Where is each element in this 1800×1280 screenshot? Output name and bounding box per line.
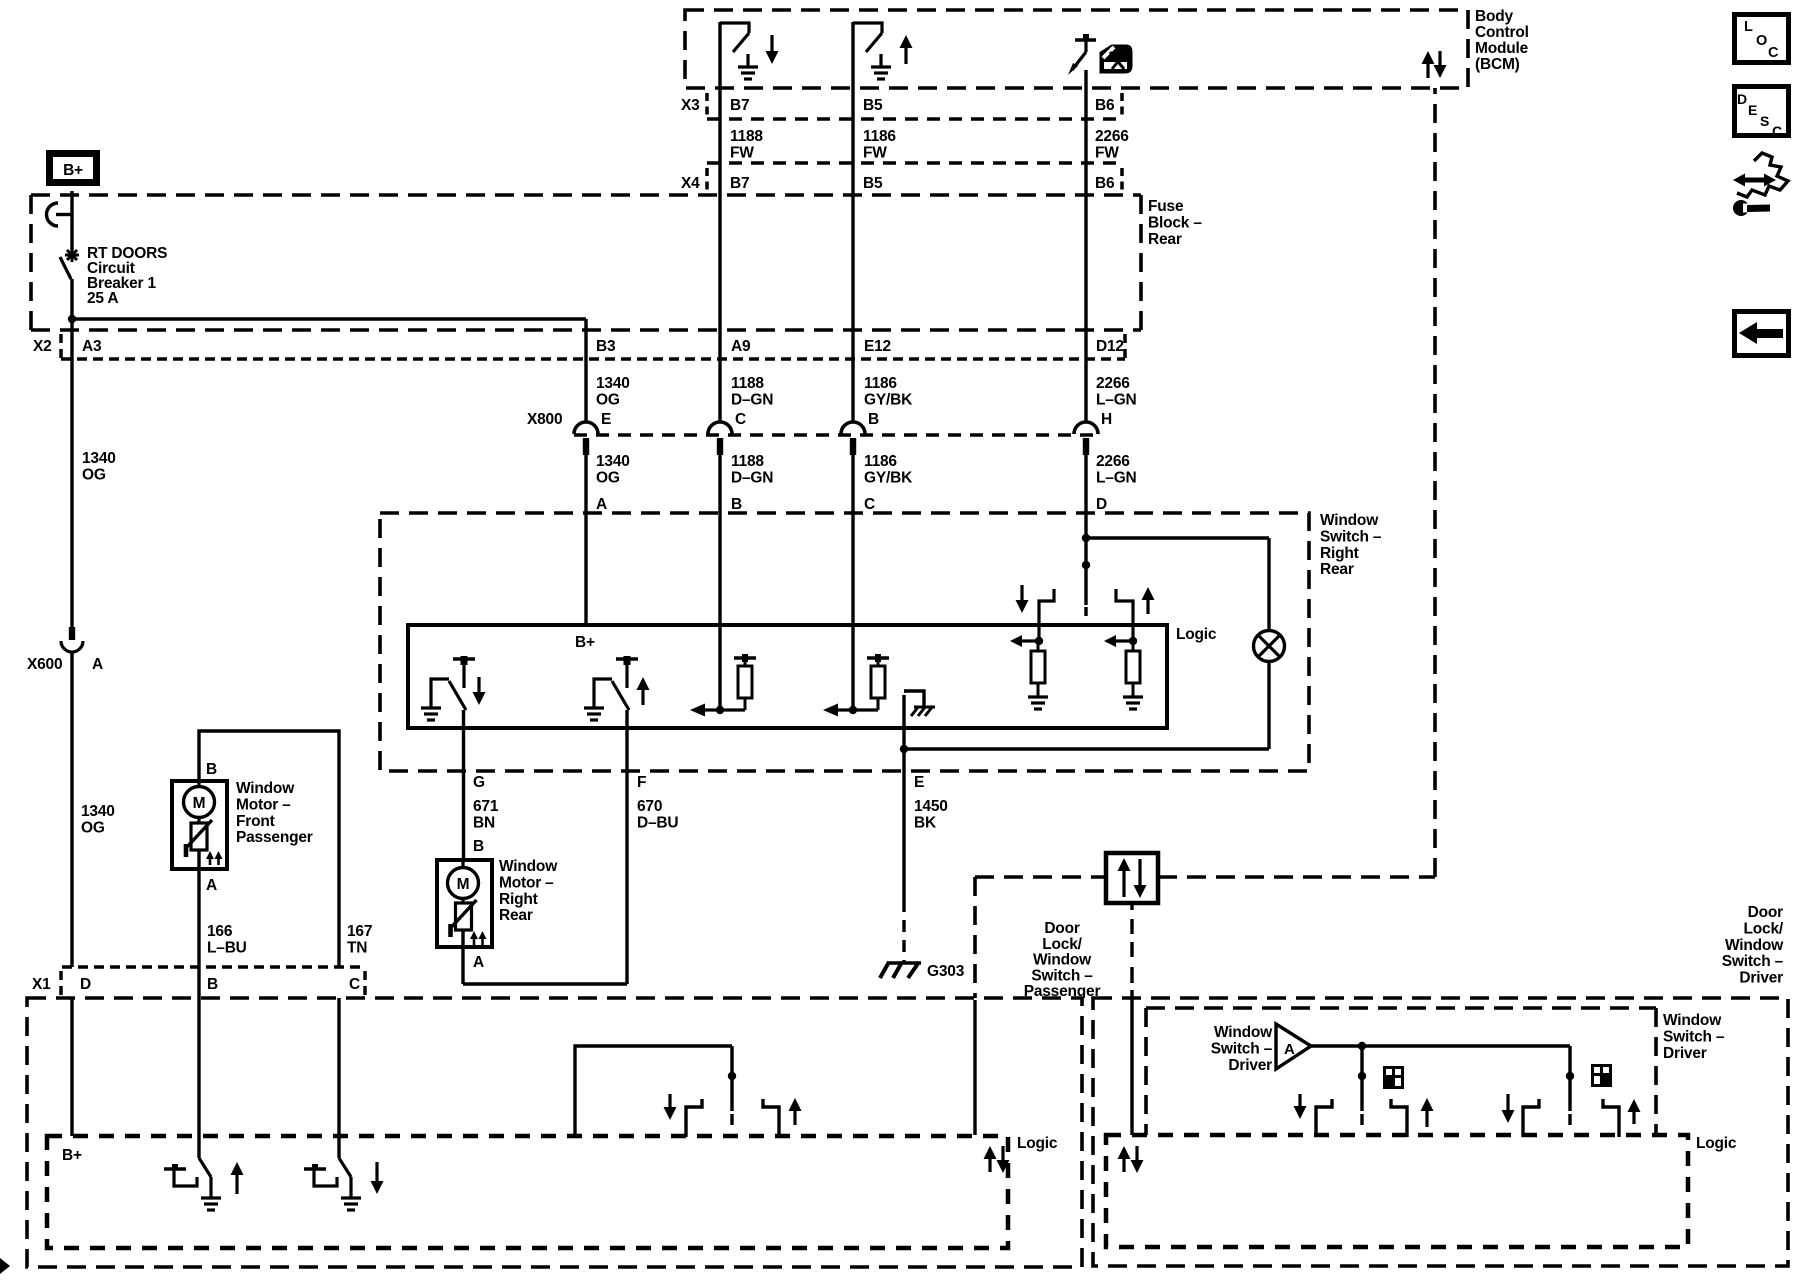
svg-text:1186: 1186 [863, 128, 896, 145]
svg-text:B5: B5 [863, 175, 883, 192]
window icon left [1385, 1068, 1403, 1088]
svg-text:BN: BN [473, 814, 495, 831]
svg-text:G303: G303 [927, 963, 965, 980]
svg-text:2266: 2266 [1095, 128, 1129, 145]
svg-text:Block –: Block – [1148, 214, 1202, 231]
motor RR internal wire [461, 930, 464, 947]
svg-text:Logic: Logic [1176, 626, 1217, 643]
svg-text:Switch –: Switch – [1320, 528, 1382, 545]
BCM window-down switch ground [746, 54, 749, 66]
svg-text:H: H [1101, 411, 1112, 428]
svg-text:D: D [1096, 496, 1107, 513]
BCM window-lockout switch contact [1075, 38, 1096, 41]
svg-text:C: C [1768, 45, 1779, 61]
svg-text:Control: Control [1475, 24, 1529, 41]
driver data arrows [1122, 1159, 1125, 1172]
svg-text:2266: 2266 [1096, 453, 1130, 470]
svg-text:B3: B3 [596, 338, 616, 355]
junction B wire [716, 706, 724, 714]
svg-text:Switch –: Switch – [1031, 967, 1093, 984]
svg-text:Logic: Logic [1017, 1135, 1058, 1152]
svg-text:X600: X600 [27, 656, 62, 673]
svg-text:Switch –: Switch – [1211, 1040, 1273, 1057]
lamp feed wire [1086, 536, 1269, 539]
svg-text:1340: 1340 [596, 453, 630, 470]
circuit breaker CB1 element [71, 248, 74, 262]
wire 1186 GY/BK into window switch [851, 455, 854, 710]
X800 terminal H [1074, 422, 1098, 434]
svg-text:B: B [868, 411, 879, 428]
BCM window-up switch contact [853, 23, 882, 33]
passenger up switch ground [201, 1196, 221, 1199]
passenger bus drop [730, 1046, 733, 1111]
svg-text:Fuse: Fuse [1148, 198, 1184, 215]
svg-text:FW: FW [730, 144, 754, 161]
svg-text:A9: A9 [731, 338, 751, 355]
svg-text:A: A [206, 877, 217, 894]
driver bus drop 1 [1360, 1046, 1363, 1111]
driver window2 down contact [1523, 1099, 1539, 1137]
svg-text:BK: BK [914, 814, 937, 831]
svg-text:B: B [206, 761, 217, 778]
passenger down arrow [375, 1162, 378, 1181]
svg-text:Switch –: Switch – [1722, 953, 1784, 970]
pull resistor R3 [1031, 651, 1045, 683]
RR up arrow [641, 690, 644, 705]
svg-text:A: A [596, 496, 607, 513]
connector X600 terminal A [69, 627, 75, 640]
Window Switch - Right Rear box [380, 513, 1309, 771]
svg-text:TN: TN [347, 939, 367, 956]
junction [1129, 637, 1137, 645]
passenger down switch blade [339, 1158, 351, 1177]
driver window1 up contact [1391, 1099, 1407, 1137]
svg-text:Motor –: Motor – [236, 796, 291, 813]
RR up switch blade [612, 681, 629, 710]
svg-text:Driver: Driver [1739, 970, 1783, 987]
passenger data arrows [988, 1159, 991, 1172]
svg-text:F: F [637, 774, 646, 791]
svg-text:B: B [473, 838, 484, 855]
wire 1340 OG to X1 [70, 652, 73, 967]
arrow into logic (down signal) [705, 708, 720, 711]
passenger module annex edges [973, 877, 977, 998]
driver bus drop 2 [1568, 1046, 1571, 1111]
serial data wire from passenger to driver [1130, 903, 1133, 910]
logic box of right rear switch [408, 625, 1167, 728]
svg-text:Logic: Logic [1696, 1135, 1737, 1152]
svg-text:Rear: Rear [1148, 231, 1182, 248]
B+ battery terminal box [50, 154, 97, 183]
svg-text:B6: B6 [1095, 175, 1115, 192]
svg-text:Rear: Rear [499, 907, 533, 924]
Door Lock Window Switch - Driver box [1093, 998, 1788, 1266]
passenger serial data connector box [1106, 853, 1158, 903]
svg-text:Window: Window [1725, 937, 1784, 954]
svg-text:E: E [914, 774, 924, 791]
svg-text:A3: A3 [82, 338, 102, 355]
svg-text:1188: 1188 [730, 128, 763, 145]
wire 166 L-BU into passenger switch [197, 998, 200, 1158]
wire 670 D-BU switch to motor [625, 710, 628, 984]
B+ feed wire to window switch [72, 317, 586, 320]
junction [1035, 637, 1043, 645]
circuit breaker hook [56, 213, 72, 216]
junction D wire lower [1082, 561, 1090, 569]
svg-text:L–BU: L–BU [207, 939, 247, 956]
driver window2 up arrow [1632, 1112, 1635, 1124]
svg-text:Right: Right [499, 891, 538, 908]
wire 1340 OG into passenger switch [70, 998, 73, 1136]
svg-text:FW: FW [1095, 144, 1119, 161]
passenger up switch blade [199, 1158, 211, 1177]
driver window2 down arrow [1506, 1094, 1509, 1110]
driver window2 up contact [1603, 1099, 1619, 1137]
svg-text:D–BU: D–BU [637, 814, 678, 831]
svg-text:167: 167 [347, 923, 372, 940]
svg-text:Motor –: Motor – [499, 874, 554, 891]
X800 terminal B [841, 422, 865, 434]
wire 1186 FW from BCM (B5) [851, 22, 854, 421]
passenger window up contact [763, 1099, 779, 1137]
svg-text:Window: Window [499, 858, 558, 875]
passenger down switch ground [341, 1196, 361, 1199]
LOC icon box [1735, 15, 1789, 63]
wire 671 BN switch to motor [462, 710, 465, 860]
Fuse Block - Rear box [31, 193, 1141, 197]
svg-text:670: 670 [637, 798, 662, 815]
serial data line to BCM [1158, 875, 1435, 879]
passenger window down arrow [668, 1094, 671, 1107]
RR up switch ground contact [594, 679, 612, 708]
arrow left (up lockout) [1116, 639, 1133, 642]
passenger up arrow [235, 1175, 238, 1194]
junction drop [728, 1072, 736, 1080]
RR down arrow [477, 677, 480, 692]
svg-text:E: E [601, 411, 611, 428]
indicator lamp [1254, 631, 1285, 662]
ground G303 [887, 961, 921, 964]
RR lockout up switch contact [1116, 589, 1133, 641]
svg-text:OG: OG [82, 466, 106, 483]
wire 1340 OG from X2 A3 down [70, 332, 73, 627]
junction D wire to lamp [1082, 534, 1090, 542]
driver window1 up arrow [1425, 1111, 1428, 1127]
wire 167 TN into passenger switch [337, 998, 340, 1158]
BCM window-down switch blade [733, 33, 749, 52]
svg-text:C: C [1772, 123, 1782, 139]
svg-text:Lock/: Lock/ [1042, 936, 1082, 953]
svg-text:E: E [1748, 102, 1757, 118]
junction bus 1 [1358, 1042, 1366, 1050]
RR down switch ground contact [431, 679, 449, 708]
svg-text:S: S [1760, 113, 1769, 129]
driver logic box [1106, 1135, 1688, 1247]
svg-text:B+: B+ [575, 634, 595, 651]
BCM module box (Body Control Module) [685, 10, 1468, 88]
svg-text:2266: 2266 [1096, 375, 1130, 392]
svg-text:L–GN: L–GN [1096, 391, 1137, 408]
wire from B+ into fuse block [70, 191, 73, 214]
svg-text:Driver: Driver [1228, 1057, 1272, 1074]
BCM serial data arrows [1426, 64, 1429, 78]
svg-text:Door: Door [1748, 904, 1784, 921]
svg-text:A: A [92, 656, 103, 673]
svg-text:1186: 1186 [864, 453, 897, 470]
svg-text:B: B [207, 976, 218, 993]
wire 1340 OG segment to X800 [584, 319, 587, 421]
ground R4 [1123, 695, 1143, 698]
passenger window up arrow [793, 1111, 796, 1125]
svg-text:X3: X3 [681, 97, 700, 114]
svg-text:Lock/: Lock/ [1744, 920, 1784, 937]
svg-text:25 A: 25 A [87, 290, 118, 307]
back arrow icon box [1735, 312, 1789, 356]
svg-text:A: A [1284, 1041, 1295, 1058]
svg-text:D–GN: D–GN [731, 469, 773, 486]
RR up switch contact [616, 657, 638, 660]
svg-text:M: M [457, 876, 470, 893]
passenger data wire [973, 1000, 976, 1135]
junction drop 1 [1358, 1072, 1366, 1080]
driver window1 down contact [1316, 1099, 1332, 1137]
junction of B+ feed [68, 315, 76, 323]
passenger down switch contact [304, 1167, 326, 1170]
wire 1450 BK inside switch [902, 695, 905, 771]
passenger switch bus [575, 1046, 732, 1136]
svg-text:L–GN: L–GN [1096, 469, 1137, 486]
DESC icon box [1735, 87, 1789, 136]
Window Motor - Right Rear M2 [437, 860, 492, 947]
lamp return wire [1267, 661, 1270, 749]
RR down switch contact [453, 657, 475, 660]
svg-text:O: O [1756, 33, 1767, 49]
svg-text:D: D [1737, 91, 1747, 107]
svg-text:1340: 1340 [82, 450, 116, 467]
wire 167 TN upper segment [199, 731, 339, 967]
svg-text:X1: X1 [32, 976, 51, 993]
svg-text:Window: Window [1033, 952, 1092, 969]
svg-text:Window: Window [1320, 512, 1379, 529]
svg-text:B7: B7 [730, 175, 749, 192]
svg-text:Door: Door [1044, 920, 1080, 937]
driver switch bus [1311, 1044, 1570, 1047]
svg-text:Right: Right [1320, 545, 1359, 562]
BCM window-up switch blade [866, 33, 882, 52]
svg-text:B7: B7 [730, 97, 749, 114]
pull resistor R4 [1126, 651, 1140, 683]
Door Lock Window Switch - Passenger box [27, 998, 1082, 1267]
svg-text:Passenger: Passenger [236, 829, 313, 846]
X800 terminal C [708, 422, 732, 434]
svg-text:B: B [731, 496, 742, 513]
wire 166 L-BU motor to X1 [197, 850, 200, 998]
svg-text:Rear: Rear [1320, 561, 1354, 578]
wire 1188 D-GN into window switch [718, 455, 721, 710]
svg-text:Window: Window [1663, 1012, 1722, 1029]
svg-text:B6: B6 [1095, 97, 1115, 114]
wire 1340 OG into window switch [584, 455, 587, 625]
wire 1450 BK to ground [902, 771, 905, 900]
junction drop 2 [1566, 1072, 1574, 1080]
wire 1188 FW from BCM (B7) [718, 22, 721, 421]
svg-text:Module: Module [1475, 40, 1529, 57]
Window Switch - Driver inner box [1146, 1006, 1656, 1010]
Window Motor - Front Passenger M1 [172, 781, 227, 869]
svg-text:X2: X2 [33, 338, 52, 355]
svg-text:1186: 1186 [864, 375, 897, 392]
svg-text:C: C [864, 496, 875, 513]
BCM up arrow [904, 48, 907, 64]
passenger up switch contact [164, 1167, 186, 1170]
svg-text:X800: X800 [527, 411, 562, 428]
svg-text:1340: 1340 [596, 375, 630, 392]
svg-text:GY/BK: GY/BK [864, 469, 913, 486]
logic internal ground (chassis) [904, 691, 924, 707]
junction lamp return [900, 745, 908, 753]
svg-text:Window: Window [236, 780, 295, 797]
svg-text:M: M [193, 795, 206, 812]
svg-text:1188: 1188 [731, 375, 764, 392]
svg-text:X4: X4 [681, 175, 700, 192]
svg-text:L: L [1744, 19, 1753, 35]
svg-text:GY/BK: GY/BK [864, 391, 913, 408]
window icon right [1593, 1066, 1611, 1086]
RR sense resistor R1 [734, 656, 756, 659]
RR lockout up arrow [1146, 600, 1149, 614]
svg-text:B+: B+ [63, 162, 83, 179]
svg-text:D12: D12 [1096, 338, 1124, 355]
RR sense resistor R2 [867, 656, 889, 659]
window lockout icon [1101, 46, 1131, 72]
svg-text:Passenger: Passenger [1024, 983, 1101, 1000]
svg-text:Body: Body [1475, 8, 1514, 25]
BCM down arrow [770, 35, 773, 51]
Window Switch - Driver amplifier A1 [1276, 1024, 1311, 1069]
svg-text:Window: Window [1214, 1024, 1273, 1041]
arrow left (down lockout) [1022, 639, 1039, 642]
svg-text:FW: FW [863, 144, 887, 161]
svg-text:671: 671 [473, 798, 499, 815]
passenger window down contact [686, 1099, 702, 1137]
svg-text:A: A [473, 954, 484, 971]
BCM window-up switch ground [879, 54, 882, 66]
wire 2266 L-GN into window switch [1084, 455, 1087, 605]
page corner mark [0, 1258, 10, 1274]
svg-text:Driver: Driver [1663, 1045, 1707, 1062]
arrow into logic (up signal) [838, 708, 853, 711]
svg-text:D–GN: D–GN [731, 391, 773, 408]
svg-text:B+: B+ [62, 1147, 82, 1164]
X800 terminal E [574, 422, 598, 434]
svg-text:1340: 1340 [81, 803, 115, 820]
svg-text:D: D [80, 976, 91, 993]
wire 2266 FW from BCM (B6) [1084, 70, 1087, 421]
RR down switch blade [449, 681, 466, 710]
svg-text:(BCM): (BCM) [1475, 56, 1520, 73]
svg-text:Switch –: Switch – [1663, 1028, 1725, 1045]
svg-text:1450: 1450 [914, 798, 948, 815]
junction C wire [849, 706, 857, 714]
svg-text:1188: 1188 [731, 453, 764, 470]
driver window1 down arrow [1298, 1094, 1301, 1106]
BCM window-down switch contact [720, 23, 749, 33]
BCM window-lockout switch blade [1072, 52, 1086, 70]
passenger logic box [47, 1136, 1008, 1248]
svg-text:G: G [473, 774, 485, 791]
svg-text:OG: OG [596, 469, 620, 486]
svg-text:C: C [349, 976, 360, 993]
svg-text:OG: OG [596, 391, 620, 408]
RR lockout down switch contact [1039, 589, 1054, 641]
svg-text:166: 166 [207, 923, 233, 940]
wire from breaker down [70, 279, 73, 332]
svg-text:Front: Front [236, 813, 275, 830]
svg-text:B5: B5 [863, 97, 883, 114]
ground R3 [1028, 695, 1048, 698]
svg-text:E12: E12 [864, 338, 891, 355]
RR lockout down arrow [1020, 585, 1023, 600]
jump navigation icon [1733, 153, 1788, 216]
svg-text:OG: OG [81, 819, 105, 836]
svg-text:C: C [735, 411, 746, 428]
